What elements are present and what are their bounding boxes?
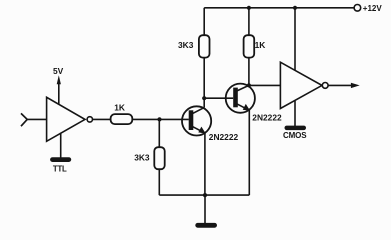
label 3K3 (lower) — [134, 153, 150, 163]
wire Q1 emitter down to ground rail — [204, 133, 206, 195]
wire +12V rail — [204, 7, 354, 9]
wire Q2 collector up (R4 bottom lead) — [248, 57, 250, 85]
wire U2 output — [328, 84, 352, 86]
transistor Q1 2N2222 — [182, 106, 211, 135]
bubble on U2 output — [322, 83, 328, 89]
node junction Q1 collector / Q2 base — [202, 96, 206, 100]
label 2N2222 (Q1) — [209, 132, 239, 142]
ground CMOS — [285, 126, 307, 131]
inverter gate U2 (CMOS) — [280, 62, 322, 108]
label 1K (series resistor) — [114, 102, 125, 112]
node junction rail / U2 power — [293, 6, 297, 10]
svg-text:2N2222: 2N2222 — [209, 132, 239, 142]
wire R4 top to rail — [248, 8, 250, 35]
wire R3 top to rail — [203, 8, 205, 35]
resistor R3 3K3 (collector load Q1) — [199, 35, 210, 57]
node junction at base divider — [157, 117, 161, 121]
resistor R1 1K (series) — [111, 114, 133, 124]
wire input to gate U1 — [27, 118, 46, 120]
node junction Q2 collector — [247, 83, 251, 87]
svg-text:3K3: 3K3 — [178, 40, 194, 50]
wire U2 bottom to ground — [294, 101, 296, 126]
wire bottom ground rail — [159, 194, 249, 196]
ground TTL — [50, 157, 71, 162]
wire junction to ground symbol — [204, 195, 206, 223]
inverter gate U1 (TTL) — [47, 97, 85, 141]
wire R2 bottom to ground rail — [158, 169, 160, 195]
label TTL — [53, 164, 67, 173]
5V supply label — [53, 66, 64, 76]
svg-text:CMOS: CMOS — [283, 131, 307, 140]
terminal +12V — [354, 5, 361, 12]
label +12V — [363, 4, 383, 13]
wire Q1 collector to Q2 base — [204, 97, 233, 99]
wire Q2 emitter down to ground rail — [248, 110, 250, 195]
label 2N2222 (Q2) — [252, 113, 282, 123]
svg-text:5V: 5V — [53, 66, 64, 76]
wire Q1 collector up (R3 bottom lead) — [203, 57, 205, 107]
node junction rail / R4 — [247, 6, 251, 10]
svg-text:1K: 1K — [255, 40, 266, 50]
output arrow — [351, 83, 360, 88]
wire R1 to Q1 base — [133, 118, 189, 120]
resistor R2 3K3 (to ground) — [154, 147, 164, 169]
input terminal — [21, 113, 27, 126]
label 3K3 (upper) — [178, 40, 194, 50]
node junction at ground — [203, 193, 207, 197]
svg-text:+12V: +12V — [363, 4, 383, 13]
wire U2 power pin to rail — [294, 8, 296, 71]
svg-text:2N2222: 2N2222 — [252, 113, 282, 123]
label 1K (vertical resistor) — [255, 40, 266, 50]
svg-text:3K3: 3K3 — [134, 153, 150, 163]
transistor Q2 2N2222 — [226, 84, 255, 113]
5V supply arrow — [57, 75, 61, 104]
wire Q2 collector to gate U2 input — [249, 84, 281, 86]
svg-text:TTL: TTL — [53, 164, 67, 173]
wire junction down to R2 — [158, 119, 160, 147]
svg-text:1K: 1K — [114, 102, 125, 112]
label CMOS — [283, 131, 307, 140]
wire U1 bottom to ground — [60, 133, 62, 158]
ground (main) — [195, 223, 217, 228]
bubble on U1 output — [87, 117, 92, 122]
resistor R4 1K (collector load Q2) — [244, 35, 255, 57]
wire U1 output to R1 — [93, 118, 111, 120]
